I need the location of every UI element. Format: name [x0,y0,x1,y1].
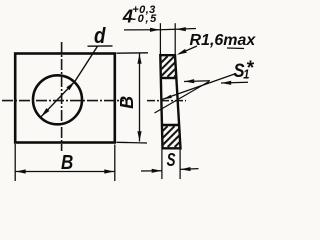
section: hole upper edge [161,77,177,79]
svg-text:R1,6max: R1,6max [190,32,257,49]
short line under label [227,47,244,50]
section: hole lower edge [162,124,179,126]
section view: washer cross-section outline [160,55,180,148]
hole circle [33,75,82,124]
dimension B right: dimension line with arrows [139,54,141,142]
dimension S1: oblique line lower [155,82,210,114]
dimension B bottom: dimension line with arrows [16,171,115,173]
svg-text:B: B [61,150,73,173]
svg-text:*: * [247,58,255,79]
dimension d: diameter line with arrows [41,82,75,117]
dimension S: outside arrows [141,170,162,172]
horizontal center line [2,100,124,102]
dimension B right: extension lines [117,52,149,54]
dimension 4: dimension line, outside arrows [124,29,160,31]
dimension S1: arrows [184,80,210,83]
left view: square washer face outline [15,54,115,143]
svg-text:B: B [117,96,137,109]
svg-text:S: S [167,150,176,171]
section hatching bottom block [162,126,180,147]
dimension d: leader to label [75,46,98,81]
svg-text:d: d [94,25,106,49]
vertical center line [61,42,63,151]
dimension S1: oblique line upper [162,74,236,100]
section horizontal center line [147,100,186,102]
dimension S bottom: extension lines [161,150,163,180]
dimension B bottom: extension lines [14,144,16,181]
section hatching top block [161,56,177,77]
dimension 4: extension lines [159,23,161,54]
